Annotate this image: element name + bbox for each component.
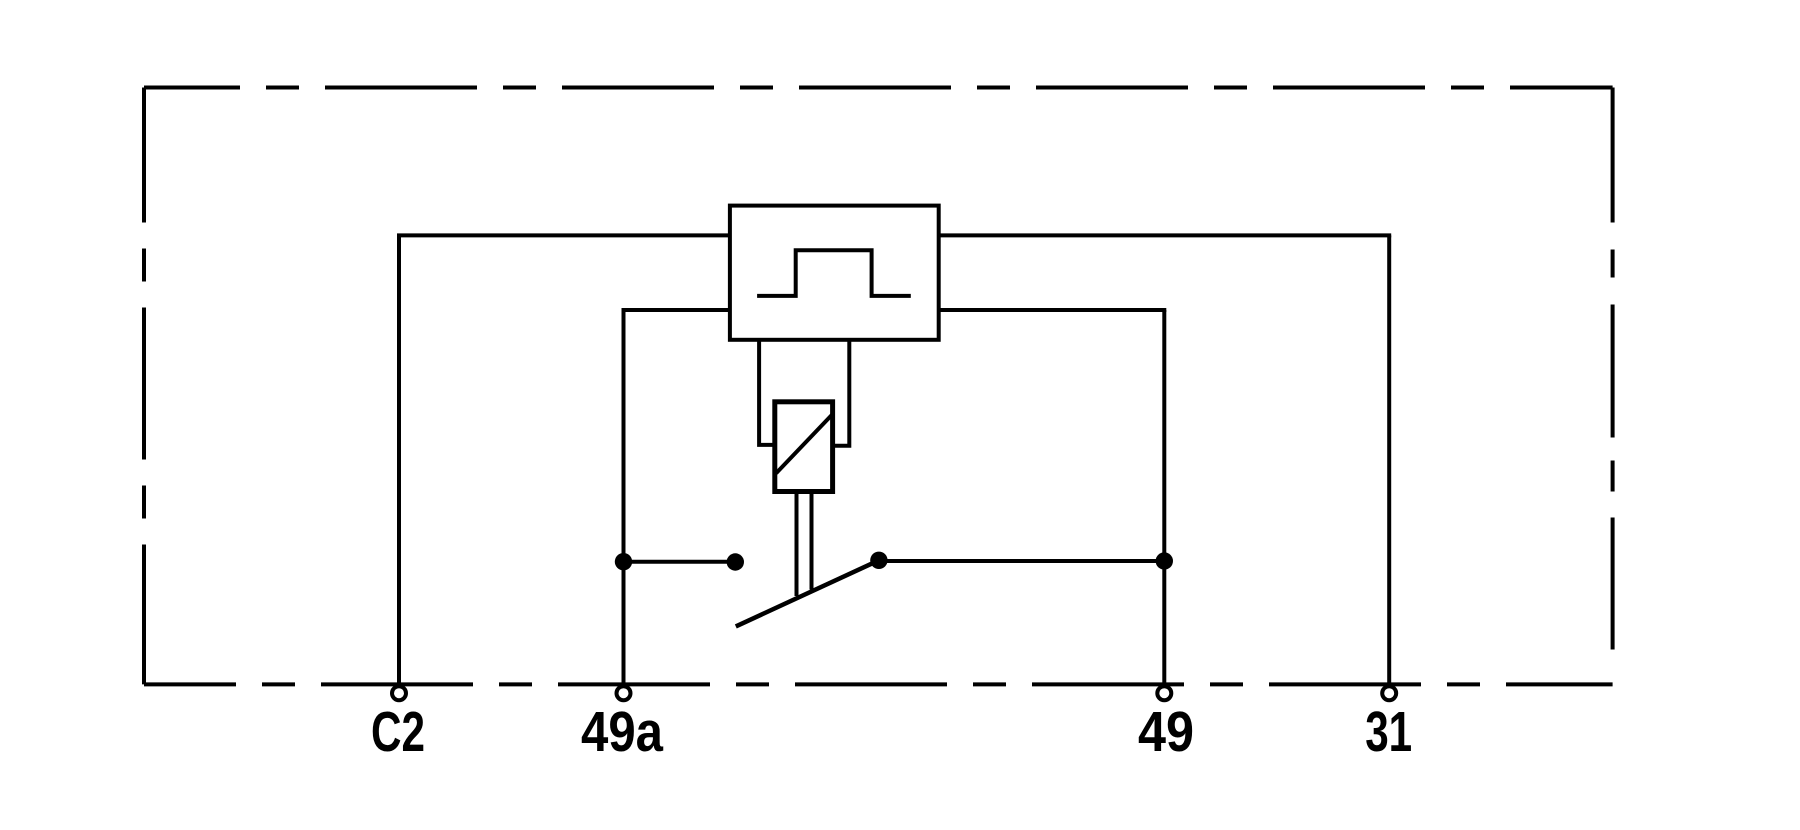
terminal C2 (open circle) [392, 686, 406, 700]
pulse generator U1 (box) [730, 206, 939, 340]
wire: U1 bottom left stub to relay coil [759, 340, 775, 445]
wire: C2 to pulse generator input (top left horizontal) [397, 233, 730, 237]
wire: pivot to 49 junction [879, 559, 1164, 563]
svg-text:49: 49 [1138, 700, 1194, 763]
relay coil K1 diagonal stroke [776, 414, 833, 473]
svg-text:C2: C2 [371, 700, 425, 763]
junction dot on 49a riser [615, 553, 632, 570]
terminal 49 (open circle) [1157, 686, 1171, 700]
wire: terminal C2 vertical riser [397, 235, 401, 684]
wire: terminal 49a vertical riser [622, 310, 626, 684]
relay housing (dashed enclosure) left edge [142, 88, 146, 685]
switch arm (moving contact, open) [736, 560, 879, 626]
actuator rod (double line) right [810, 491, 814, 590]
wire: terminal 31 vertical riser [1387, 235, 1391, 684]
terminal 49a (open circle) [617, 686, 631, 700]
relay housing (dashed enclosure) right edge [1611, 88, 1615, 685]
wire: pulse generator output to terminal 31 (top right horizontal) [939, 233, 1391, 237]
terminal 31 (open circle) [1382, 686, 1396, 700]
pulse waveform symbol inside U1 [757, 250, 911, 296]
relay housing (dashed enclosure) bottom edge [144, 682, 1613, 686]
actuator rod (double line) left [795, 491, 799, 596]
wire: pulse generator right lower pin to 49 branch [939, 308, 1167, 312]
svg-text:31: 31 [1365, 700, 1412, 763]
fixed contact dot [727, 553, 744, 570]
wire: U1 bottom right stub to relay coil [832, 340, 849, 446]
wire: terminal 49 vertical riser [1162, 310, 1166, 684]
relay coil K1 (box with diagonal) [775, 402, 833, 492]
wire: pulse generator left lower pin to 49a branch [622, 308, 730, 312]
pivot contact dot [870, 552, 887, 569]
svg-text:49a: 49a [581, 700, 663, 763]
wire: 49a junction to fixed contact [624, 560, 736, 564]
junction dot on 49 riser [1156, 552, 1173, 569]
relay housing (dashed enclosure) top edge [144, 86, 1613, 90]
